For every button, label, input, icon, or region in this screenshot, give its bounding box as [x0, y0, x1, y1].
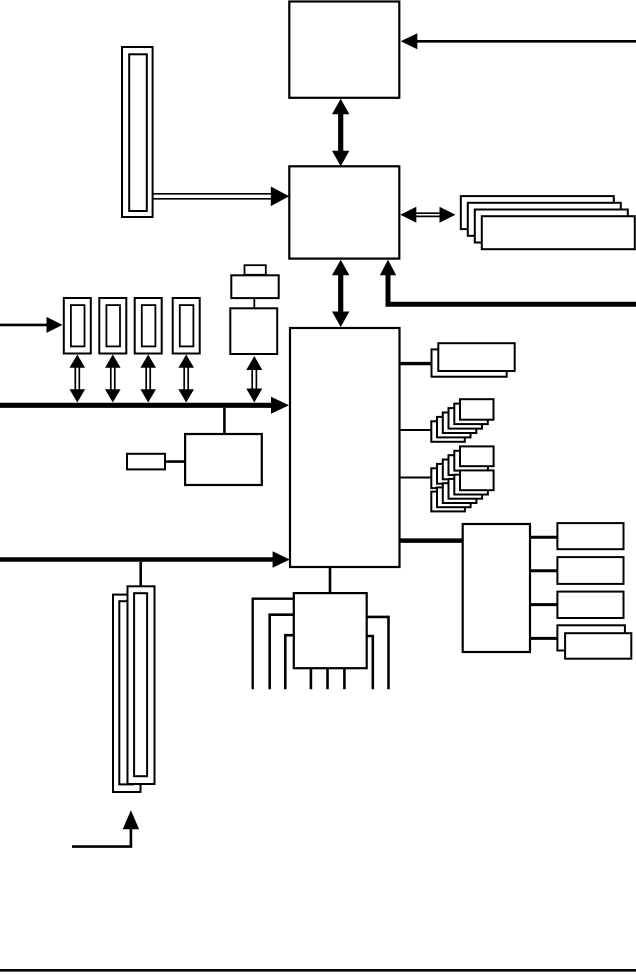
South Bridge box — [290, 328, 400, 567]
device box 4 front — [565, 633, 631, 659]
wire: IDE to device 3 — [530, 603, 557, 606]
Super IO pin bottom 3 — [343, 668, 346, 689]
USB port 4 — [173, 298, 200, 354]
wire: line from right edge with up arrow into NB bottom — [380, 260, 636, 305]
wire: SB to IDE box thick line — [400, 538, 464, 543]
device box 3 — [557, 592, 623, 618]
cascade B stack — [431, 446, 493, 488]
Super IO box — [294, 593, 367, 668]
BIOS lower box — [230, 308, 277, 354]
device box 2 — [557, 557, 623, 584]
cascade C stack — [431, 470, 493, 511]
wire: SB to cascade C — [400, 477, 432, 479]
dual stacked component back — [432, 349, 507, 376]
BIOS double arrow — [246, 356, 262, 403]
North Bridge box — [289, 166, 399, 258]
wire: drop from PCI bus — [223, 408, 226, 434]
BIOS middle rect — [231, 275, 278, 298]
USB port 1 — [64, 298, 91, 354]
USB double arrow 3 — [140, 355, 156, 403]
ISA slot front — [128, 586, 155, 784]
wire: IDE to device 4 — [530, 637, 557, 640]
wire: SB to dual-socket component — [400, 362, 432, 365]
Super IO pin bottom 2 — [326, 668, 329, 689]
Super IO pin right 1 — [367, 617, 389, 689]
DIMM sockets stack — [461, 196, 635, 249]
wire: BIOS connector — [253, 298, 255, 308]
footer rule — [0, 969, 636, 972]
wire: arrow from left edge into USB ports — [0, 317, 63, 333]
hub link double arrow NB-SB — [332, 260, 349, 327]
Super IO pin bottom 1 — [310, 668, 313, 689]
wire: bottom L-line with up arrow — [72, 810, 139, 846]
Super IO pin left 3 — [285, 635, 294, 689]
front side bus double arrow CPU-NB — [332, 99, 349, 167]
dual stacked component front — [438, 343, 514, 371]
CPU box — [289, 2, 399, 98]
USB double arrow 2 — [105, 355, 121, 403]
Super IO pin left 2 — [270, 615, 294, 690]
ISA slot back — [113, 595, 141, 792]
device box 4 back — [557, 625, 625, 650]
BIOS top small rect — [245, 265, 266, 275]
wire: IDE to device 1 — [530, 536, 557, 539]
IDE controller tall box — [463, 524, 530, 652]
wire: arrow from right edge into CPU — [401, 33, 636, 49]
LAN port small rect — [127, 454, 165, 470]
USB port 3 — [135, 298, 162, 354]
device box 1 — [557, 523, 623, 549]
Super IO pin left 1 — [253, 599, 294, 690]
wire: SB to Super IO connector — [329, 567, 332, 593]
PCI bus thick arrow into SB — [0, 397, 289, 414]
wire: LAN connector — [165, 460, 185, 463]
USB double arrow 1 — [70, 355, 86, 403]
memory bus double arrow NB-DIMM — [400, 207, 455, 223]
AGP slot — [122, 47, 153, 217]
Super IO pin right 2 — [367, 636, 373, 689]
cascade A stack — [431, 399, 493, 442]
wire: drop from ISA bus to slots — [139, 562, 142, 587]
wire: IDE to device 2 — [530, 569, 557, 572]
USB port 2 — [99, 298, 126, 354]
ISA bus thick arrow into SB — [0, 551, 290, 567]
wire: SB to cascade A — [400, 429, 433, 431]
LAN controller box — [185, 434, 262, 485]
AGP bus double-line arrow to NB — [153, 187, 290, 207]
USB double arrow 4 — [178, 355, 194, 403]
